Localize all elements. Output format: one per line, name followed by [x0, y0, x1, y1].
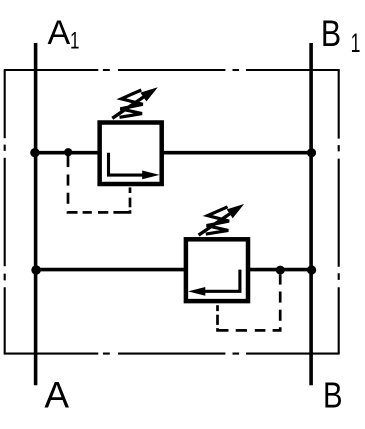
svg-text:B: B [321, 13, 341, 54]
svg-text:1: 1 [70, 28, 79, 54]
svg-text:1: 1 [351, 27, 361, 58]
svg-text:B: B [323, 375, 343, 416]
svg-text:A: A [44, 375, 69, 416]
svg-text:A: A [48, 14, 71, 52]
